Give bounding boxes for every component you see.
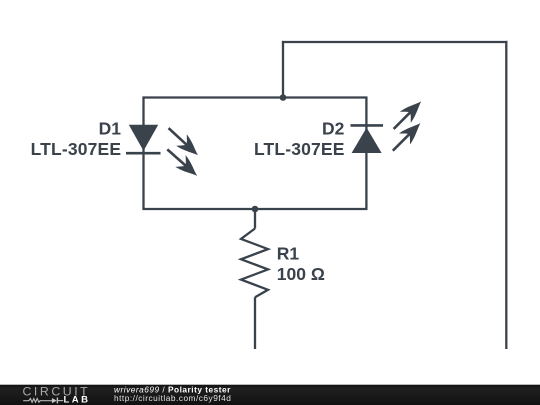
node junction top [280, 94, 287, 101]
LED D2 symbol (cathode up) [351, 96, 427, 156]
resistor R1 [241, 209, 268, 349]
svg-text:http://circuitlab.com/c6y9f4d: http://circuitlab.com/c6y9f4d [114, 393, 231, 403]
CircuitLab logo diode [52, 398, 63, 404]
wire from top node up [282, 41, 284, 98]
svg-text:LTL-307EE: LTL-307EE [254, 139, 344, 159]
wire right vertical (D2 branch) [365, 98, 367, 210]
CircuitLab logo resistor zigzag [23, 399, 52, 403]
wire top rail of loop [142, 96, 367, 98]
wire right outer vertical (probe lead) [505, 41, 507, 349]
svg-text:100 Ω: 100 Ω [277, 264, 325, 284]
svg-text:LTL-307EE: LTL-307EE [31, 139, 121, 159]
svg-text:D1: D1 [99, 118, 122, 138]
svg-text:LAB: LAB [64, 395, 91, 405]
wire left vertical (D1 branch) [142, 98, 144, 210]
wire bottom rail of loop [142, 208, 367, 210]
node junction bottom [252, 206, 259, 213]
svg-text:D2: D2 [322, 118, 345, 138]
LED D1 symbol (cathode down) [126, 122, 203, 181]
wire top horizontal [282, 41, 508, 43]
svg-text:R1: R1 [277, 244, 300, 264]
